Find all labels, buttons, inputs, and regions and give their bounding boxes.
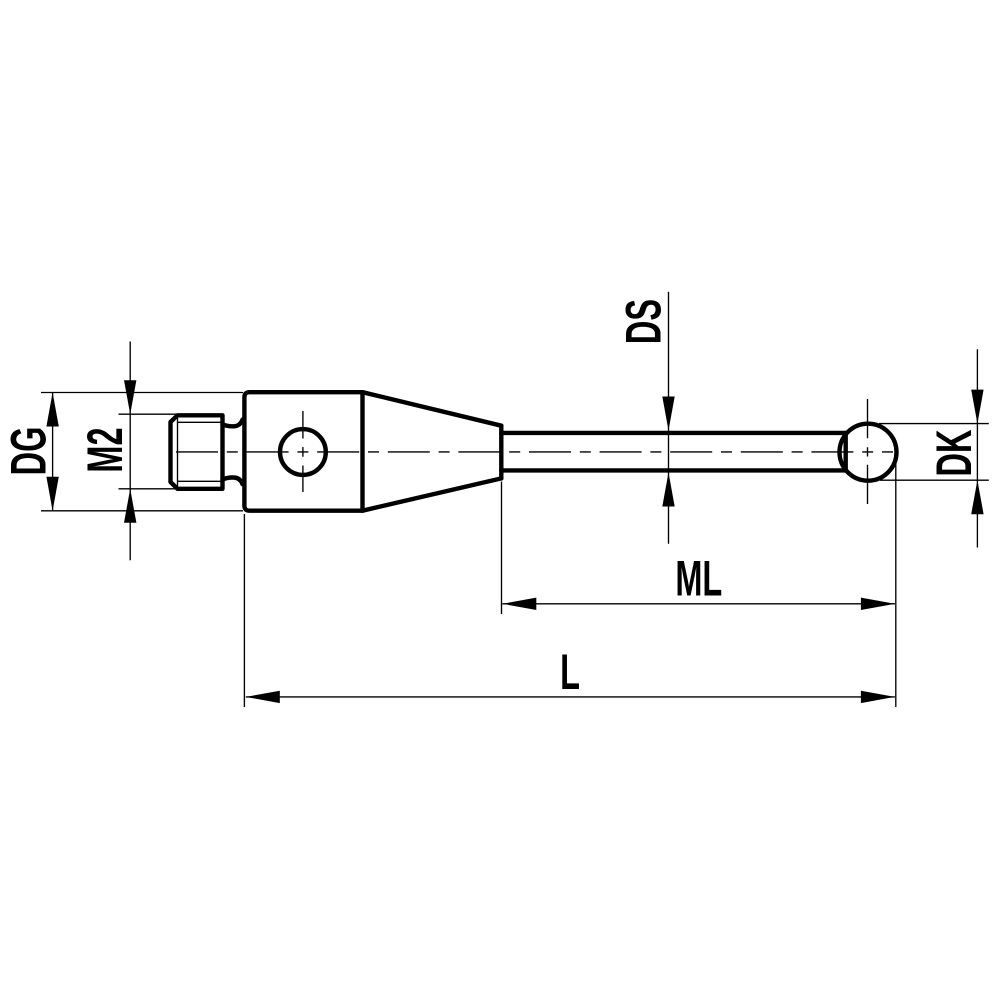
ML arrow left	[502, 598, 536, 610]
thread chamfer line	[177, 415, 179, 489]
DS arrow up	[662, 473, 674, 507]
DS dimension line	[668, 292, 670, 544]
L dimension line	[246, 696, 895, 698]
svg-text:M2: M2	[77, 427, 133, 472]
M2 arrow up	[124, 489, 136, 523]
ML extension line left	[501, 482, 503, 615]
cross hole circle	[280, 429, 326, 475]
ball (ruby sphere)	[840, 424, 897, 481]
DG extension line bottom	[41, 510, 243, 512]
DK dimension line	[976, 349, 978, 547]
M2 extension line top	[119, 413, 177, 415]
taper cone top edge	[363, 392, 502, 426]
thread root line top	[178, 421, 223, 423]
svg-text:ML: ML	[675, 550, 722, 606]
stem bottom edge	[501, 468, 845, 472]
L extension line left	[243, 514, 245, 707]
M2 extension line bottom	[119, 488, 177, 490]
DK extension line bottom	[880, 479, 989, 481]
neck undercut top	[223, 420, 243, 427]
stem end face	[844, 433, 848, 471]
svg-text:L: L	[560, 644, 580, 700]
M2 dimension line	[129, 342, 131, 561]
neck undercut bottom	[223, 478, 243, 485]
stem top edge	[501, 431, 845, 435]
DG arrow down	[46, 477, 58, 511]
taper end face	[499, 426, 503, 479]
svg-text:DK: DK	[926, 429, 982, 476]
svg-text:DG: DG	[0, 427, 56, 476]
svg-text:DS: DS	[615, 299, 671, 344]
DK extension line top	[879, 423, 989, 425]
L arrow left	[246, 691, 280, 703]
DK arrow up	[971, 480, 983, 514]
DS arrow down	[662, 397, 674, 431]
ML dimension line	[502, 603, 895, 605]
DG dimension line	[52, 393, 54, 511]
DG arrow up	[46, 393, 58, 427]
DK arrow down	[971, 390, 983, 424]
M2 arrow down	[124, 380, 136, 414]
thread M2 stud outline	[171, 415, 223, 489]
taper cone bottom edge	[363, 478, 502, 510]
ball vertical center mark	[867, 399, 869, 504]
cross hole vertical center mark	[302, 411, 304, 492]
body block	[244, 392, 362, 511]
shared right extension line	[895, 459, 897, 707]
wire horizontal main centerline (dash-dot)	[176, 451, 893, 453]
ML arrow right	[861, 598, 895, 610]
L arrow right	[861, 691, 895, 703]
DG extension line top	[41, 392, 243, 394]
thread root line bottom	[178, 480, 223, 482]
